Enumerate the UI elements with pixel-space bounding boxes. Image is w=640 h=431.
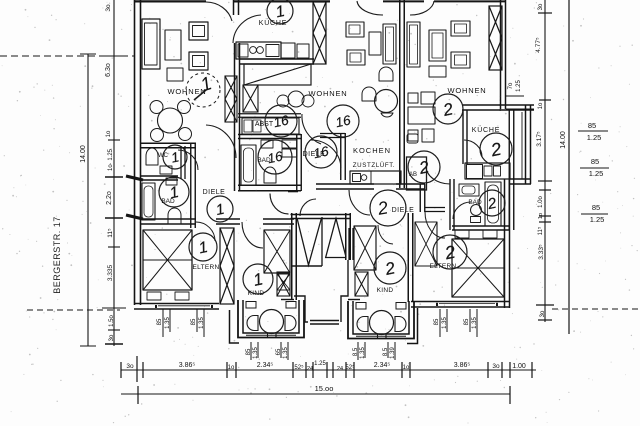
round table 16 bbox=[375, 90, 398, 113]
dining chair 2c bbox=[408, 130, 418, 141]
toilet BAD 1 bbox=[168, 208, 181, 224]
unit circle 16 WOHNEN bbox=[327, 105, 359, 137]
left exterior wall bbox=[134, 0, 136, 305]
svg-text:85: 85 bbox=[157, 318, 163, 325]
window sill mark left wall lower bbox=[126, 215, 143, 219]
dashed circle WOHNEN 1 bbox=[186, 73, 220, 107]
sink BAD 2 bbox=[459, 184, 479, 196]
svg-text:14.00: 14.00 bbox=[560, 131, 567, 149]
unit circle 1 KIND bbox=[243, 264, 273, 294]
toilet tank BAD 2 bbox=[471, 217, 481, 223]
door arc DIELE 16 bbox=[311, 140, 341, 168]
nightstand ELTERN2 b bbox=[483, 230, 497, 238]
unit circle 16 BAD bbox=[258, 140, 292, 174]
door arc unit1 hall to vestibule bbox=[270, 194, 289, 215]
DIELE 16 north wall piece bbox=[320, 137, 345, 139]
BAD 2 south wall bbox=[452, 229, 509, 231]
toilet bowl BAD 2 bbox=[471, 205, 482, 216]
hatched party wall unit1/unit16 bbox=[313, 2, 326, 64]
svg-text:85: 85 bbox=[464, 318, 470, 325]
table 16 bbox=[369, 32, 381, 55]
svg-text:65: 65 bbox=[276, 348, 282, 355]
right exterior wall lower (ELTERN 2) bbox=[504, 179, 506, 308]
armchair 1b bbox=[189, 52, 208, 70]
unit circle 16 ABST bbox=[265, 105, 297, 137]
bottom wall under ELTERN 2 with window bbox=[411, 301, 509, 303]
svg-text:3.335: 3.335 bbox=[107, 264, 114, 281]
stairwell east wall bbox=[345, 213, 347, 260]
svg-text:KOCHEN: KOCHEN bbox=[353, 146, 391, 155]
nightstand ELTERN1 b bbox=[175, 292, 189, 300]
BAD 16 south wall bbox=[238, 190, 301, 192]
door arc KUECHE 1 top bbox=[206, 2, 232, 21]
svg-text:3o: 3o bbox=[105, 4, 112, 12]
KIND 2 bay window bbox=[348, 301, 414, 339]
right dimension chain line bbox=[544, 0, 546, 322]
window sub-dims under ELTERN 1 bbox=[162, 309, 164, 337]
KIND 1 bay window bbox=[238, 300, 304, 338]
left outer dimension line 14.00 bbox=[87, 54, 89, 346]
WOHNEN 1 south wall bbox=[140, 147, 196, 149]
dining chair 2b bbox=[421, 92, 435, 104]
svg-text:11⁵: 11⁵ bbox=[537, 226, 544, 235]
wall stub below stair east bbox=[348, 299, 360, 301]
bay2 radiator left bbox=[356, 303, 366, 310]
dining chair 1b bbox=[178, 101, 191, 114]
svg-text:1o: 1o bbox=[228, 365, 235, 371]
left dimension chain line bbox=[113, 0, 115, 346]
KIND 2 bed bbox=[354, 226, 376, 270]
svg-text:3.33⁵: 3.33⁵ bbox=[538, 244, 545, 260]
door arc KUECHE 1 interior bbox=[233, 15, 261, 43]
coffee table 2 bbox=[429, 66, 446, 77]
unit circle 1 BAD bbox=[159, 177, 189, 207]
svg-text:1.35: 1.35 bbox=[165, 317, 171, 329]
corridor walls to entrance bbox=[294, 296, 308, 322]
door arc WOHNEN 16 top bbox=[357, 1, 383, 15]
ABST 16 shelves bbox=[242, 118, 299, 134]
washer BAD 16 a bbox=[282, 140, 297, 148]
svg-text:2.34⁵: 2.34⁵ bbox=[257, 362, 274, 369]
wardrobe with diagonal (unit 16) bbox=[244, 64, 311, 85]
svg-text:1.35: 1.35 bbox=[199, 317, 205, 329]
unit circle 2 KIND bbox=[374, 252, 406, 284]
door arc KUECHE 2 bbox=[464, 140, 482, 157]
dining chair 2d bbox=[422, 129, 434, 142]
svg-text:3o: 3o bbox=[538, 3, 544, 10]
svg-text:1.25: 1.25 bbox=[589, 169, 604, 178]
hatched duct on party wall bbox=[225, 76, 237, 122]
center wall south piece right bbox=[396, 188, 425, 190]
svg-text:3o: 3o bbox=[492, 363, 500, 370]
kitchen 2 top wall jog bbox=[500, 109, 535, 111]
svg-text:3.17⁵: 3.17⁵ bbox=[536, 131, 543, 147]
svg-text:85: 85 bbox=[591, 157, 599, 166]
armchair 2a bbox=[451, 21, 470, 36]
door arc BAD 2 bbox=[453, 202, 471, 219]
bay2 chair left bbox=[357, 317, 368, 332]
right exterior wall upper (WOHNEN 2) bbox=[500, 0, 502, 109]
svg-text:7o: 7o bbox=[508, 82, 514, 89]
unit circle 1 ELTERN bbox=[189, 233, 217, 261]
coffee table 1 bbox=[167, 68, 183, 81]
svg-text:1.35: 1.35 bbox=[472, 317, 478, 329]
dining chair 1a bbox=[150, 101, 163, 114]
window sill mark left wall upper bbox=[126, 176, 143, 180]
unit circle 1 WC bbox=[163, 145, 187, 169]
hatched duct square unit16 bbox=[243, 85, 258, 112]
svg-text:3o: 3o bbox=[109, 334, 115, 341]
ABST 16 north wall bbox=[238, 116, 301, 118]
door arc KIND 1 bbox=[242, 222, 263, 248]
svg-text:2.34⁵: 2.34⁵ bbox=[374, 362, 391, 369]
unit circle 1 DIELE bbox=[207, 196, 233, 222]
svg-text:3.86⁵: 3.86⁵ bbox=[454, 362, 471, 369]
nightstand ELTERN1 a bbox=[147, 292, 161, 300]
bay2 radiator right bbox=[396, 303, 406, 310]
svg-text:11⁵: 11⁵ bbox=[107, 228, 114, 238]
svg-text:1o· 1.25: 1o· 1.25 bbox=[108, 148, 114, 171]
bay2 chair right bbox=[395, 317, 406, 332]
svg-text:DIELE: DIELE bbox=[203, 189, 226, 196]
stair treads zigzag bbox=[297, 218, 322, 265]
unit circle 2 WOHNEN bbox=[433, 94, 463, 124]
door arc WC 1 bbox=[178, 150, 198, 170]
entrance threshold between bays bbox=[310, 320, 339, 322]
svg-text:6.3o: 6.3o bbox=[105, 63, 112, 77]
door arc WOHNEN 2 top bbox=[410, 1, 434, 15]
svg-text:1.35: 1.35 bbox=[253, 347, 259, 359]
door arc DIELE 1 bbox=[206, 125, 236, 158]
BAD 16 east wall bbox=[296, 134, 298, 191]
unit circle 1 KUECHE1 bbox=[267, 0, 293, 24]
bay1 chair right bbox=[285, 316, 296, 331]
side table 1 bbox=[165, 30, 181, 60]
AB 2 sink bbox=[407, 134, 418, 143]
wall stub vestibule west bbox=[288, 191, 298, 193]
KOCHEN 16 west wall bbox=[340, 133, 342, 180]
top cut wall line bbox=[134, 0, 206, 2]
KIND 1 north wall west piece bbox=[216, 223, 240, 225]
bottom dimension chain line bbox=[121, 369, 536, 371]
bay2 round table bbox=[370, 311, 394, 335]
kitchen 1 cabinet right bbox=[297, 44, 309, 58]
stair landing line bbox=[293, 265, 323, 267]
svg-text:85: 85 bbox=[588, 121, 596, 130]
overall dimension line 15.00 bbox=[121, 393, 510, 395]
KUECHE 2 north wall bbox=[462, 109, 501, 111]
window glazing kitchen 2 bbox=[521, 112, 523, 179]
svg-text:52⁵: 52⁵ bbox=[345, 364, 355, 371]
svg-text:24: 24 bbox=[307, 366, 313, 372]
BAD 2 west wall bbox=[449, 179, 451, 230]
bay1 radiator left bbox=[246, 302, 256, 309]
svg-text:1.35: 1.35 bbox=[360, 347, 366, 359]
svg-text:1.5o: 1.5o bbox=[109, 315, 115, 327]
door arc DIELE 2 west bbox=[349, 190, 370, 215]
svg-text:85: 85 bbox=[191, 318, 197, 325]
dining chair 2a bbox=[408, 93, 418, 103]
hatched wall ELTERN1/KIND1 bbox=[220, 228, 234, 304]
nightstand ELTERN2 a bbox=[455, 230, 469, 238]
party wall unit1/unit16 lower bbox=[234, 43, 236, 191]
window sub-dims under right bay bbox=[357, 342, 359, 360]
svg-text:KIND: KIND bbox=[377, 287, 394, 294]
svg-text:WOHNEN: WOHNEN bbox=[309, 89, 348, 98]
door arc DIELE2 to KIND2 bbox=[378, 225, 393, 244]
WOHNEN 1 sofa bbox=[142, 19, 160, 69]
svg-text:1o: 1o bbox=[538, 102, 544, 109]
sink BAD 1 bbox=[166, 178, 177, 185]
desk KIND 1 bbox=[277, 274, 290, 290]
unit circle 2 ELTERN bbox=[433, 235, 467, 269]
washer BAD 16 b bbox=[282, 149, 297, 157]
svg-text:ELTERN: ELTERN bbox=[193, 264, 220, 271]
dining table 2 bbox=[408, 107, 435, 124]
door arc vestibule to stair bbox=[300, 199, 316, 216]
dashed line bottom-right bbox=[552, 308, 640, 310]
terrace step wall left of bay 1 bbox=[230, 310, 240, 343]
ABST 16 south wall bbox=[238, 138, 301, 140]
dining chair 1d bbox=[179, 128, 192, 141]
fridge unit 1 bbox=[281, 43, 295, 58]
unit circle 2 KUECHE bbox=[480, 133, 512, 165]
dining table unit 1 bbox=[158, 108, 183, 133]
KUECHE 1 counter bbox=[236, 42, 281, 59]
svg-text:1.25: 1.25 bbox=[516, 80, 522, 92]
bathtub BAD 1 bbox=[142, 183, 155, 220]
ELTERN 2 north wall piece bbox=[425, 211, 445, 213]
hatched pocket right of corridor bbox=[355, 272, 368, 296]
kitchen 2 bottom wall jog bbox=[510, 183, 531, 185]
KIND 2 west wall piece bbox=[348, 228, 350, 260]
bay1 round table bbox=[260, 310, 284, 334]
svg-text:15.oo: 15.oo bbox=[315, 384, 334, 393]
svg-text:ABST: ABST bbox=[255, 121, 274, 128]
KIND 2 east wall bbox=[407, 213, 409, 302]
bathtub BAD 16 bbox=[241, 145, 256, 185]
DIELE2/ELTERN2 west wall stub bbox=[419, 184, 421, 212]
svg-text:WOHNEN: WOHNEN bbox=[448, 86, 487, 95]
toilet WC1 bbox=[146, 148, 158, 165]
chair 16c below table bbox=[381, 113, 393, 117]
svg-text:85: 85 bbox=[434, 318, 440, 325]
sideboard 2 bbox=[407, 22, 420, 67]
unit 16 dining set bbox=[277, 95, 289, 107]
sink BAD 16 bbox=[261, 140, 273, 148]
bottom wall under ELTERN 1 with window bbox=[134, 303, 219, 305]
round chair 16 bbox=[379, 67, 393, 81]
svg-text:1.25: 1.25 bbox=[587, 133, 602, 142]
armchair 2b bbox=[451, 52, 470, 68]
svg-text:1.39: 1.39 bbox=[390, 347, 396, 359]
svg-text:52⁵: 52⁵ bbox=[294, 364, 304, 371]
svg-text:1.35: 1.35 bbox=[442, 317, 448, 329]
svg-text:3.86⁵: 3.86⁵ bbox=[179, 362, 196, 369]
dining chair 1c bbox=[151, 129, 164, 142]
bay1 radiator right bbox=[286, 302, 296, 309]
svg-text:1o: 1o bbox=[403, 365, 410, 371]
unit circle 2 BAD bbox=[479, 190, 505, 216]
svg-text:1.35: 1.35 bbox=[283, 347, 289, 359]
svg-text:14.00: 14.00 bbox=[80, 145, 87, 163]
dashed construction line top-left bbox=[0, 55, 134, 57]
KUECHE 1 south wall bbox=[239, 63, 314, 65]
stairwell north wall bbox=[291, 218, 352, 220]
svg-text:3o: 3o bbox=[540, 310, 546, 317]
svg-text:ZUSTZLÜFT.: ZUSTZLÜFT. bbox=[353, 162, 395, 169]
KUECHE 2 counter bbox=[465, 163, 510, 179]
sofa 16 bbox=[383, 24, 396, 64]
svg-text:4.77⁵: 4.77⁵ bbox=[535, 37, 542, 53]
svg-text:1.00: 1.00 bbox=[512, 363, 526, 370]
bathtub BAD 2 bbox=[485, 182, 501, 226]
chair 16b bbox=[362, 87, 376, 101]
door arc ELTERN 1 bbox=[196, 222, 215, 241]
sofa 2 bbox=[429, 30, 446, 61]
kitchen 2 right exterior wall bbox=[525, 105, 527, 184]
svg-text:8.5: 8.5 bbox=[383, 347, 389, 356]
svg-text:1o: 1o bbox=[106, 130, 112, 137]
svg-text:1.0o: 1.0o bbox=[538, 196, 544, 208]
center wall south of unit 16 bbox=[316, 188, 374, 190]
right outer dimension line bbox=[568, 0, 570, 334]
svg-text:85: 85 bbox=[246, 348, 252, 355]
arrow tail WOHNEN 1 bbox=[194, 90, 206, 100]
svg-text:85: 85 bbox=[592, 203, 600, 212]
svg-text:8.5: 8.5 bbox=[353, 347, 359, 356]
ELTERN 1 north wall bbox=[140, 223, 196, 225]
window sub-dims under left bay bbox=[250, 342, 252, 360]
wall stub below stair west bbox=[281, 299, 294, 301]
hatched wall in unit 2 (loggia) bbox=[489, 6, 502, 70]
unit circle 2 DIELE bbox=[370, 190, 406, 226]
door arc ELTERN 2 bbox=[425, 212, 445, 238]
terrace step wall right of bay 2 bbox=[407, 308, 418, 344]
stairwell west wall bbox=[291, 213, 293, 300]
svg-text:2.2o: 2.2o bbox=[106, 191, 113, 205]
svg-text:1.25: 1.25 bbox=[590, 215, 605, 224]
WC 1 south wall bbox=[140, 179, 178, 181]
KOCHEN 16 counter bbox=[350, 171, 401, 184]
unit circle 16 DIELE bbox=[305, 136, 337, 168]
KIND 1 bed bbox=[264, 230, 290, 273]
svg-text:DIELE: DIELE bbox=[392, 207, 415, 214]
door arc AB2/DIELE2 bbox=[426, 166, 450, 184]
BAD 2 east wall / kitchen interior bbox=[508, 110, 510, 230]
svg-text:1.25: 1.25 bbox=[314, 361, 326, 367]
BAD 1 east wall bbox=[190, 144, 192, 228]
bay1 chair left bbox=[247, 316, 258, 331]
svg-text:24: 24 bbox=[337, 366, 343, 372]
svg-text:1o: 1o bbox=[538, 213, 544, 219]
svg-text:3o: 3o bbox=[126, 363, 134, 370]
window sub-dims under ELTERN 2 bbox=[439, 309, 441, 337]
KUECHE 1 west wall upper bbox=[233, 0, 235, 15]
armchair 16a bbox=[346, 22, 364, 37]
door arc BAD 16 bbox=[302, 114, 321, 144]
svg-text:BERGERSTR. 17: BERGERSTR. 17 bbox=[52, 216, 62, 294]
KUECHE 2 west wall bbox=[462, 110, 464, 164]
unit circle 2 AB bbox=[408, 151, 440, 183]
wardrobe ELTERN 2 bbox=[415, 222, 437, 266]
sink WC1 bbox=[160, 166, 172, 174]
AB closet unit 2 bbox=[407, 157, 427, 190]
WC 1 east wall bbox=[180, 146, 182, 179]
dashed line bottom-left bbox=[27, 309, 120, 311]
toilet BAD 16 bbox=[264, 167, 276, 183]
KIND 1 north wall east piece bbox=[263, 223, 294, 225]
armchair 1a bbox=[189, 22, 208, 40]
hatched pocket left of corridor bbox=[277, 272, 290, 296]
ELTERN 1 bed bbox=[143, 230, 192, 290]
armchair 16b bbox=[347, 50, 365, 65]
ELTERN 2 bed bbox=[452, 239, 504, 297]
party wall unit16/unit2 bbox=[399, 0, 401, 188]
